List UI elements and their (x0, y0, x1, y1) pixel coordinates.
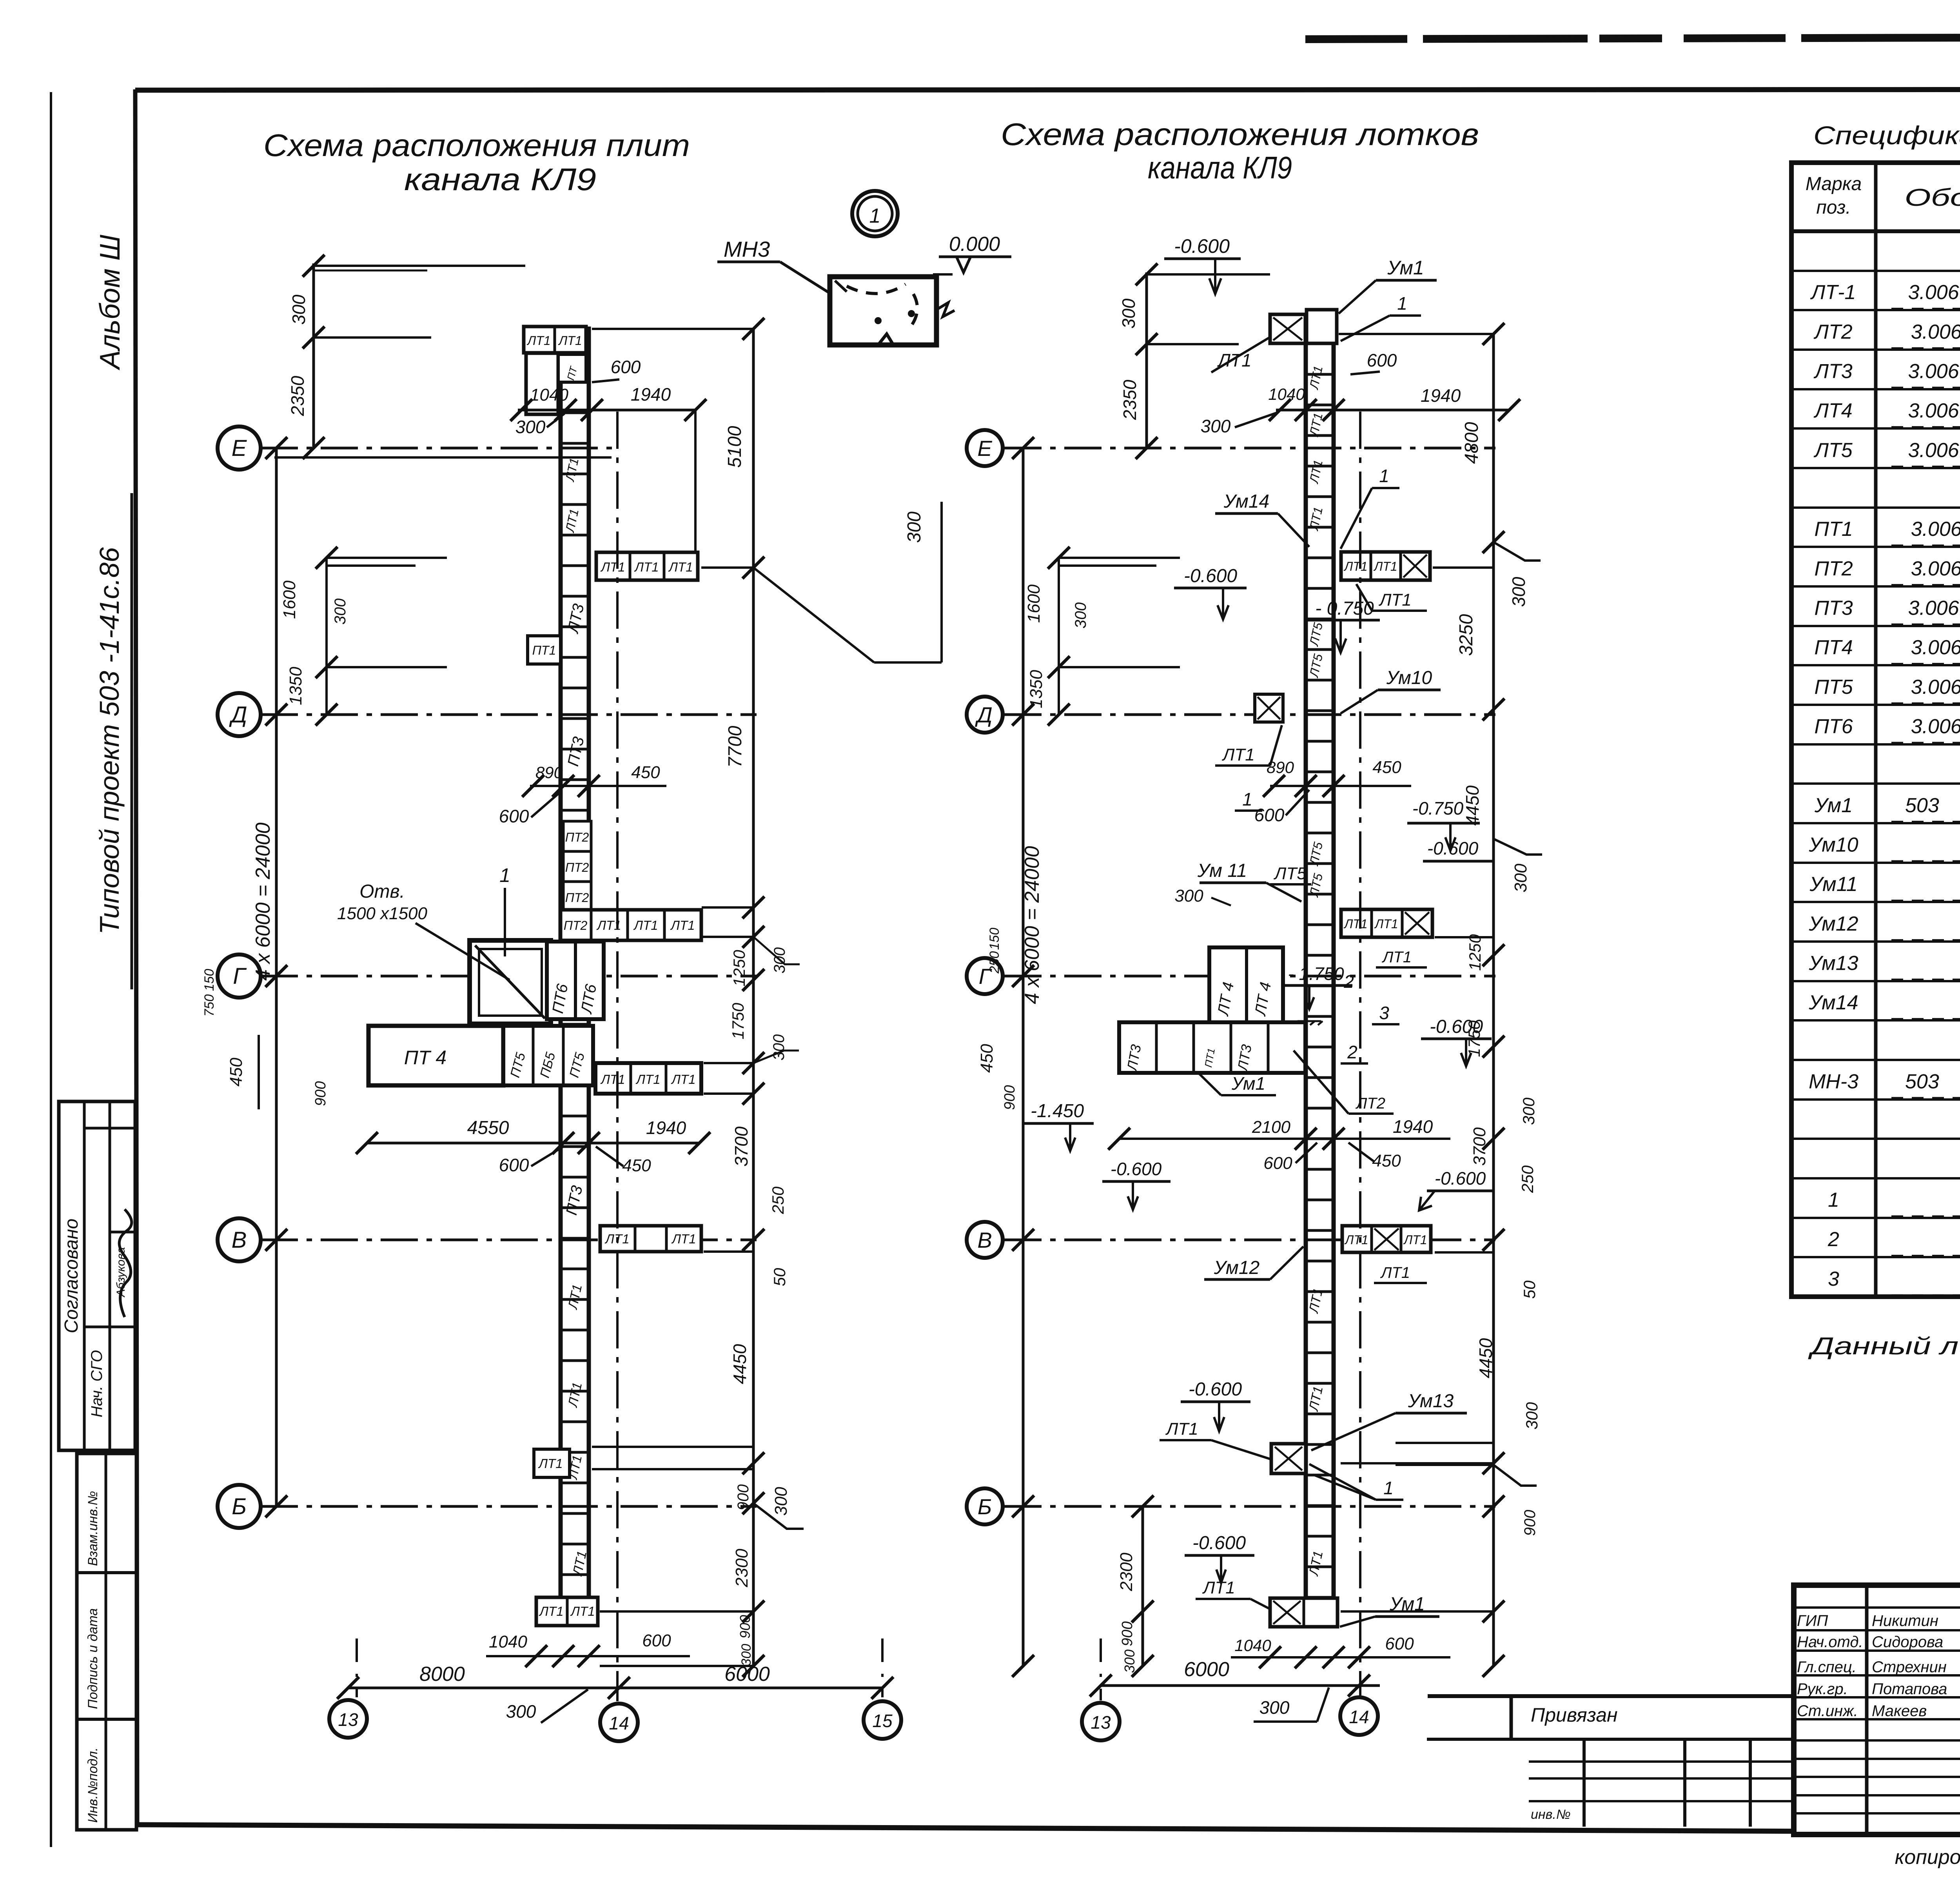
svg-text:503: 503 (1905, 794, 1939, 817)
svg-text:ЛТ1: ЛТ1 (671, 1232, 696, 1246)
svg-text:900: 900 (1002, 1085, 1018, 1110)
drawing 2 sub dims 1600/300/1350 (1058, 558, 1060, 715)
box row drawing 2 (В-350) (1341, 909, 1432, 937)
bottom axis circles 13 14 15 (329, 1700, 367, 1738)
svg-text:1040: 1040 (1268, 385, 1305, 403)
svg-text:Обозначение: Обозначение (1905, 184, 1960, 211)
svg-text:600: 600 (1263, 1154, 1292, 1173)
protruding box left (1255, 694, 1283, 722)
svg-text:Стрехнин: Стрехнин (1872, 1658, 1947, 1676)
svg-text:300: 300 (1174, 886, 1203, 905)
svg-text:ЛТ1: ЛТ1 (1403, 1233, 1427, 1247)
svg-text:300: 300 (739, 1644, 754, 1666)
svg-text:ЛТ5: ЛТ5 (1307, 653, 1325, 679)
svg-text:ЛТ1: ЛТ1 (1343, 917, 1367, 931)
row ЛТ1 x3 below Г (595, 1063, 701, 1094)
axis circle Е drawing 2 (967, 430, 1003, 466)
svg-text:Б: Б (232, 1494, 247, 1519)
svg-text:600: 600 (1367, 350, 1397, 370)
svg-text:В: В (232, 1227, 247, 1253)
svg-text:ЛТ1: ЛТ1 (1373, 559, 1397, 573)
axis circle В drawing 1 (218, 1218, 261, 1261)
drawing 1 top-left dim chain 300/2350 (312, 263, 315, 448)
svg-text:13: 13 (1091, 1712, 1111, 1733)
axis line (261, 975, 757, 978)
svg-text:450: 450 (1372, 1151, 1401, 1170)
svg-text:1350: 1350 (286, 667, 305, 705)
svg-text:1: 1 (869, 205, 881, 227)
svg-text:ПТ2: ПТ2 (565, 860, 589, 875)
svg-text:ЛТ1: ЛТ1 (671, 1072, 695, 1087)
svg-text:3700: 3700 (1470, 1127, 1489, 1166)
svg-text:ЛТ1: ЛТ1 (1307, 412, 1325, 438)
svg-text:14: 14 (609, 1713, 629, 1733)
svg-text:ЛТ1: ЛТ1 (539, 1604, 563, 1619)
top box row ЛТ1 ЛТ1 (524, 327, 586, 353)
axis circle Д drawing 2 (967, 697, 1003, 733)
top cell ПТ1 (558, 354, 586, 382)
svg-text:600: 600 (611, 357, 641, 377)
svg-text:Взам.инв.№: Взам.инв.№ (85, 1491, 100, 1566)
svg-text:2300: 2300 (1117, 1553, 1136, 1591)
svg-text:ПТ2: ПТ2 (564, 918, 588, 933)
svg-text:ЛТ1: ЛТ1 (1165, 1419, 1198, 1439)
svg-text:МН3: МН3 (724, 237, 770, 261)
stamp block lower (Взам.инв / Подпись / Инв.подл) (77, 1453, 136, 1830)
svg-text:ЛТ1: ЛТ1 (1221, 745, 1255, 764)
box row below E: ЛТ1 ЛТ1 ЛТ1 (596, 552, 698, 580)
svg-text:Никитин: Никитин (1872, 1612, 1938, 1629)
Г row: ПТ4 + ПТ5 cells (368, 1026, 503, 1085)
svg-text:900: 900 (312, 1081, 329, 1106)
svg-text:ЛТ1: ЛТ1 (565, 1283, 585, 1311)
opening square Отв (470, 940, 551, 1024)
svg-text:1: 1 (1383, 1478, 1394, 1498)
stamp block upper (Согласовано) (59, 1101, 135, 1450)
svg-text:ЛТ1: ЛТ1 (1202, 1578, 1235, 1597)
svg-text:Д: Д (229, 702, 247, 728)
svg-text:ЛТ3: ЛТ3 (564, 602, 587, 635)
svg-text:ЛТ1: ЛТ1 (1306, 1385, 1326, 1413)
stamp signature squiggle (119, 1209, 132, 1317)
svg-text:ПТ2: ПТ2 (1814, 557, 1853, 580)
svg-text:450: 450 (1372, 758, 1401, 777)
svg-text:Нач. СГО: Нач. СГО (88, 1350, 105, 1417)
svg-text:3.006.1-2/82Вып. 1 -1: 3.006.1-2/82Вып. 1 -1 (1908, 281, 1960, 304)
svg-text:ЛТ1: ЛТ1 (526, 334, 550, 348)
svg-text:890: 890 (535, 763, 563, 782)
axis 13/14 verticals drawing 2 (1100, 1639, 1102, 1700)
svg-text:300: 300 (1122, 1649, 1138, 1673)
svg-text:ПТ2: ПТ2 (565, 830, 589, 844)
svg-text:50: 50 (1520, 1280, 1539, 1299)
svg-text:3.006.1-2/82Вып.1 -2: 3.006.1-2/82Вып.1 -2 (1911, 636, 1960, 659)
svg-text:Потапова: Потапова (1872, 1680, 1947, 1698)
svg-text:8000: 8000 (419, 1663, 465, 1686)
svg-text:Привязан: Привязан (1531, 1704, 1618, 1726)
svg-text:ЛТ2: ЛТ2 (1813, 321, 1852, 343)
svg-text:Ум12: Ум12 (1808, 913, 1858, 935)
privyazan strip (1428, 1694, 1794, 1698)
svg-text:Спецификация к схемам располож: Спецификация к схемам расположения элеме… (1813, 121, 1960, 150)
svg-text:Е: Е (977, 436, 992, 461)
svg-text:ГИП: ГИП (1797, 1612, 1828, 1629)
svg-text:2350: 2350 (287, 376, 308, 416)
drawing 1 left main dim line 4x6000 (275, 448, 278, 1506)
svg-text:300: 300 (1118, 298, 1139, 328)
svg-text:4 х 6000 = 24000: 4 х 6000 = 24000 (1021, 846, 1044, 1004)
svg-text:3.006.1-2/82Вып.1 -2: 3.006.1-2/82Вып.1 -2 (1911, 676, 1960, 699)
svg-text:ПТ 4: ПТ 4 (404, 1047, 446, 1069)
svg-text:750: 750 (202, 994, 217, 1017)
svg-text:ЛТ1: ЛТ1 (538, 1456, 563, 1471)
svg-text:1040: 1040 (1234, 1636, 1271, 1655)
svg-text:ПТ1: ПТ1 (1814, 518, 1853, 541)
inventory mini grid (1583, 1739, 1586, 1827)
axis line (1004, 447, 1495, 450)
svg-text:Инв.№подл.: Инв.№подл. (85, 1747, 100, 1823)
svg-text:канала КЛ9: канала КЛ9 (404, 162, 596, 197)
svg-text:1: 1 (1242, 789, 1252, 809)
svg-text:Данный лист см. с листами: Данный лист см. с листами 15, 16-37, 40,… (1808, 1333, 1960, 1360)
svg-text:300: 300 (1523, 1402, 1541, 1430)
svg-text:Отв.: Отв. (359, 881, 405, 902)
svg-text:3250: 3250 (1456, 614, 1477, 656)
drawing 1 channel ladder verticals (559, 355, 563, 1627)
axis circle Г drawing 2 (967, 958, 1003, 994)
svg-text:Ум13: Ум13 (1408, 1391, 1454, 1412)
svg-text:3: 3 (1379, 1003, 1389, 1023)
svg-text:ЛТ3: ЛТ3 (1813, 360, 1852, 383)
svg-text:ЛТ1: ЛТ1 (1307, 459, 1325, 485)
svg-text:3.006.1-2/82Вып. 1-1: 3.006.1-2/82Вып. 1-1 (1911, 321, 1960, 343)
ladder 2 rungs (1306, 373, 1334, 376)
svg-text:0.000: 0.000 (949, 233, 1000, 256)
svg-text:-0.600: -0.600 (1189, 1379, 1242, 1400)
svg-text:1040: 1040 (530, 385, 568, 405)
svg-text:ПТ6: ПТ6 (1814, 715, 1853, 738)
svg-text:Ум12: Ум12 (1214, 1257, 1259, 1278)
svg-text:-0.750: -0.750 (1412, 798, 1464, 818)
svg-text:150: 150 (202, 969, 217, 991)
svg-text:600: 600 (1385, 1634, 1414, 1653)
svg-text:ЛТ1: ЛТ1 (563, 457, 581, 483)
svg-text:Согласовано: Согласовано (61, 1219, 82, 1334)
svg-text:Гл.спец.: Гл.спец. (1797, 1658, 1857, 1676)
svg-text:Ум14: Ум14 (1223, 491, 1269, 512)
svg-text:4800: 4800 (1461, 422, 1482, 464)
svg-text:В: В (977, 1228, 992, 1252)
svg-text:300: 300 (515, 417, 546, 437)
axis line (261, 447, 615, 450)
title block left columns (1865, 1585, 1869, 1834)
svg-text:Нач.отд.: Нач.отд. (1797, 1633, 1863, 1651)
svg-text:ЛТ1: ЛТ1 (565, 1381, 585, 1409)
svg-text:2: 2 (1828, 1228, 1839, 1251)
drawing 2 bottom dim line (1101, 1684, 1380, 1687)
axis line (261, 1505, 757, 1508)
svg-text:503: 503 (1905, 1070, 1939, 1093)
svg-text:3.006.1-2/82Вып. 1 -1: 3.006.1-2/82Вып. 1 -1 (1908, 360, 1960, 383)
svg-text:1940: 1940 (646, 1118, 686, 1138)
svg-text:Ст.инж.: Ст.инж. (1797, 1702, 1858, 1720)
svg-text:ПТ4: ПТ4 (1814, 636, 1853, 659)
svg-text:2: 2 (1347, 1042, 1357, 1062)
svg-text:3.006.1-2/82Вып. 1 -1: 3.006.1-2/82Вып. 1 -1 (1908, 439, 1960, 462)
box row ПТ2 ЛТ1 ЛТ1 ЛТ1 (561, 910, 701, 940)
ЛТ4 tall cells (1209, 947, 1283, 1026)
svg-text:Ум13: Ум13 (1808, 952, 1858, 974)
right dim chain drawing 1 (752, 329, 755, 1666)
svg-text:3700: 3700 (731, 1126, 751, 1167)
svg-text:ЛТ1: ЛТ1 (600, 560, 625, 574)
top left wide cell (526, 353, 558, 414)
axis line (261, 1239, 757, 1241)
svg-text:ЛТ1: ЛТ1 (1307, 365, 1325, 391)
svg-text:900: 900 (737, 1615, 753, 1639)
В axis box row ЛТ1 _ ЛТ1 (600, 1226, 701, 1252)
svg-text:-0.600: -0.600 (1427, 838, 1479, 858)
svg-text:ЛТ1: ЛТ1 (558, 334, 582, 348)
svg-text:1250: 1250 (730, 950, 748, 987)
svg-text:300: 300 (1519, 1097, 1538, 1125)
svg-text:ПТ3: ПТ3 (564, 735, 588, 768)
svg-text:1750: 1750 (1465, 1020, 1483, 1057)
svg-text:2100: 2100 (1252, 1118, 1290, 1137)
svg-text:1750: 1750 (729, 1003, 747, 1040)
svg-text:ЛТ1: ЛТ1 (1378, 590, 1412, 610)
svg-text:1: 1 (499, 864, 510, 886)
svg-text:4550: 4550 (467, 1118, 509, 1138)
svg-text:4 х 6000 = 24000: 4 х 6000 = 24000 (252, 822, 274, 980)
svg-text:6000: 6000 (1184, 1658, 1229, 1681)
scan top edge ragged line (1305, 36, 1960, 39)
protruding box near Б (1271, 1444, 1306, 1473)
svg-text:1600: 1600 (280, 581, 299, 619)
svg-text:3: 3 (1828, 1268, 1839, 1290)
svg-text:Б: Б (978, 1494, 992, 1519)
svg-text:ЛТ1: ЛТ1 (1381, 949, 1412, 966)
svg-text:ПТ5: ПТ5 (1814, 676, 1853, 699)
svg-text:Ум10: Ум10 (1808, 833, 1858, 856)
svg-text:ЛТ1: ЛТ1 (1217, 350, 1251, 370)
drawing 2 top-left chain 300/2350 (1145, 272, 1148, 448)
axis line (1004, 713, 1495, 716)
svg-text:7700: 7700 (725, 726, 746, 768)
ladder rungs (561, 381, 589, 384)
svg-text:3.006.1-2/82Вып.1 -2: 3.006.1-2/82Вып.1 -2 (1911, 518, 1960, 541)
svg-text:ЛТ1: ЛТ1 (1374, 917, 1398, 931)
axis 13 vertical (short) (356, 1639, 358, 1697)
svg-text:ЛТ1: ЛТ1 (570, 1604, 595, 1619)
svg-text:инв.№: инв.№ (1531, 1807, 1571, 1822)
bottom dims 1040/600 (486, 1655, 690, 1657)
svg-text:450: 450 (227, 1058, 246, 1087)
svg-text:ЛТ1: ЛТ1 (600, 1072, 625, 1087)
svg-text:300: 300 (771, 1487, 791, 1516)
svg-text:Ум1: Ум1 (1387, 257, 1424, 279)
axis circle Б drawing 1 (218, 1485, 261, 1528)
svg-text:3.006.1-2/82 Вып.1-2: 3.006.1-2/82 Вып.1-2 (1911, 715, 1960, 738)
svg-text:4450: 4450 (1475, 1338, 1496, 1378)
svg-text:250: 250 (987, 951, 1002, 974)
bottom boxes ЛТ1 ЛТ1 (536, 1597, 598, 1626)
drawing 2 bottom circles (1082, 1703, 1120, 1740)
top dim line 1040/1940 (518, 409, 695, 412)
svg-text:-0.600: -0.600 (1192, 1533, 1246, 1553)
svg-text:ЛТ1: ЛТ1 (633, 918, 658, 933)
svg-text:450: 450 (622, 1156, 651, 1175)
svg-text:- 1.750: - 1.750 (1288, 964, 1344, 984)
axis circle Д drawing 1 (218, 693, 261, 736)
svg-text:1: 1 (1828, 1189, 1839, 1211)
svg-text:2350: 2350 (1120, 379, 1140, 420)
axis circle Е drawing 1 (218, 426, 261, 470)
svg-text:Ум11: Ум11 (1809, 873, 1857, 896)
svg-text:15: 15 (872, 1711, 893, 1731)
svg-text:900: 900 (1521, 1510, 1539, 1536)
svg-text:600: 600 (499, 1155, 529, 1175)
svg-text:300: 300 (506, 1701, 536, 1722)
svg-text:1: 1 (1397, 293, 1407, 314)
svg-text:600: 600 (642, 1631, 671, 1650)
frame bottom border (137, 1825, 1960, 1834)
svg-text:ЛТ1: ЛТ1 (1306, 1550, 1326, 1577)
frame left border (135, 89, 137, 1827)
svg-text:Ум14: Ум14 (1808, 991, 1858, 1014)
svg-text:300: 300 (1201, 416, 1231, 436)
svg-text:Абзукова: Абзукова (114, 1247, 127, 1297)
axis 14 vertical dash-dot (616, 412, 619, 1701)
svg-text:300: 300 (1511, 864, 1530, 893)
axis line (1004, 1239, 1495, 1241)
svg-text:300: 300 (904, 512, 925, 543)
specification table grid (1791, 163, 1960, 1297)
svg-text:ЛТ5: ЛТ5 (1813, 439, 1853, 462)
svg-text:450: 450 (631, 763, 660, 782)
svg-text:-1.450: -1.450 (1031, 1101, 1084, 1121)
svg-text:600: 600 (499, 806, 529, 826)
detail square МН-3 (830, 277, 936, 345)
frame top border (135, 89, 1960, 90)
svg-text:ЛТ1: ЛТ1 (634, 560, 659, 574)
axis line (1004, 1505, 1495, 1508)
ladder 2 top boxes (1270, 314, 1305, 343)
title block left rows (1794, 1606, 1960, 1609)
svg-text:450: 450 (977, 1044, 996, 1073)
ПТ2 cells stack (563, 821, 591, 851)
drawing 1 sub dims 1600/300/1350 (325, 558, 328, 715)
svg-text:ЛТ-1: ЛТ-1 (1810, 281, 1856, 304)
svg-text:-0.600: -0.600 (1435, 1168, 1486, 1189)
svg-text:Схема расположения плит: Схема расположения плит (263, 128, 690, 163)
svg-text:Ум10: Ум10 (1386, 668, 1432, 688)
title block outer (1794, 1585, 1960, 1834)
svg-text:900: 900 (735, 1484, 752, 1511)
svg-text:-0.600: -0.600 (1184, 566, 1237, 586)
svg-text:3.006.1-2/82 Вып.1-2: 3.006.1-2/82 Вып.1-2 (1911, 557, 1960, 580)
ПТ6 tall cells (547, 942, 604, 1019)
drawing 2 channel ladder verticals (1304, 343, 1308, 1627)
svg-text:Ум1: Ум1 (1231, 1073, 1265, 1094)
svg-text:ЛТ1: ЛТ1 (1343, 559, 1367, 573)
svg-text:300: 300 (1508, 577, 1529, 607)
svg-text:4450: 4450 (730, 1344, 750, 1384)
svg-text:300: 300 (289, 294, 309, 325)
protruding box ПТ1 (528, 636, 561, 664)
svg-text:ЛТ1: ЛТ1 (1344, 1233, 1368, 1247)
drawing 2 left main dim line (1022, 448, 1025, 1506)
svg-text:ЛТ1: ЛТ1 (563, 508, 581, 534)
row of cells ЛТ3 (Г area drawing 2) (1119, 1022, 1305, 1073)
svg-text:копировал: копировал (1895, 1846, 1960, 1869)
svg-text:ПТ2: ПТ2 (565, 891, 589, 905)
svg-text:150: 150 (987, 928, 1002, 950)
svg-text:поз.: поз. (1816, 197, 1851, 218)
svg-text:1500 х1500: 1500 х1500 (337, 904, 428, 923)
svg-text:1: 1 (1379, 466, 1389, 486)
axis circle Б drawing 2 (967, 1488, 1003, 1524)
svg-text:ЛТ1: ЛТ1 (668, 560, 693, 574)
В axis box row drawing 2 (1342, 1226, 1431, 1252)
right dim chain drawing 2 (1492, 334, 1495, 1666)
svg-text:Марка: Марка (1806, 174, 1862, 194)
svg-text:890: 890 (1267, 758, 1294, 777)
svg-text:1350: 1350 (1027, 670, 1046, 708)
box row below Е drawing 2 (1341, 552, 1430, 580)
axis 15 vertical (short) (881, 1639, 884, 1697)
svg-text:канала КЛ9: канала КЛ9 (1148, 150, 1292, 185)
svg-text:2300: 2300 (732, 1549, 751, 1588)
svg-text:-0.600: -0.600 (1174, 235, 1230, 257)
svg-text:ПТ1: ПТ1 (532, 643, 556, 657)
svg-text:МН-3: МН-3 (1809, 1070, 1858, 1093)
svg-text:300: 300 (1072, 602, 1089, 629)
svg-text:3.006.1-2/82Вып. 1 -1: 3.006.1-2/82Вып. 1 -1 (1908, 399, 1960, 422)
svg-text:600: 600 (1254, 805, 1285, 825)
dims 890/450/600 near Д (530, 785, 666, 787)
svg-text:ЛТ5: ЛТ5 (1273, 864, 1307, 883)
svg-text:-0.600: -0.600 (1111, 1159, 1162, 1179)
svg-text:1040: 1040 (489, 1632, 527, 1651)
axis circle В drawing 2 (967, 1222, 1003, 1258)
svg-text:4450: 4450 (1462, 785, 1483, 826)
axis circle Г drawing 1 (218, 954, 261, 998)
svg-text:ЛТ1: ЛТ1 (670, 918, 695, 933)
svg-text:- 0.750: - 0.750 (1315, 598, 1374, 619)
svg-text:ПТ3: ПТ3 (1814, 597, 1853, 619)
svg-text:13: 13 (338, 1709, 358, 1730)
dim line 4550/1940 (367, 1142, 699, 1145)
svg-text:Альбом Ш: Альбом Ш (94, 234, 126, 370)
svg-text:Г: Г (233, 964, 247, 989)
protruding boxes ЛТ1 ЛТ1 at 900 (534, 1449, 570, 1477)
svg-text:1940: 1940 (1421, 385, 1461, 406)
svg-text:1940: 1940 (631, 384, 671, 405)
svg-text:Ум 11: Ум 11 (1197, 860, 1247, 881)
svg-text:ЛТ5: ЛТ5 (1307, 621, 1325, 648)
svg-text:1250: 1250 (1466, 934, 1484, 971)
svg-text:50: 50 (770, 1268, 789, 1286)
svg-text:3.006.1-2/82 Вып.1 -2: 3.006.1-2/82 Вып.1 -2 (1908, 597, 1960, 619)
svg-text:5100: 5100 (724, 426, 745, 468)
svg-text:Типовой проект 503 -1-41с.86: Типовой проект 503 -1-41с.86 (94, 547, 125, 934)
svg-text:300: 300 (770, 1034, 788, 1061)
svg-text:300: 300 (332, 599, 349, 625)
svg-text:ЛТ4: ЛТ4 (1813, 399, 1852, 422)
svg-text:ЛТ1: ЛТ1 (1380, 1264, 1410, 1281)
svg-text:1940: 1940 (1393, 1116, 1433, 1137)
